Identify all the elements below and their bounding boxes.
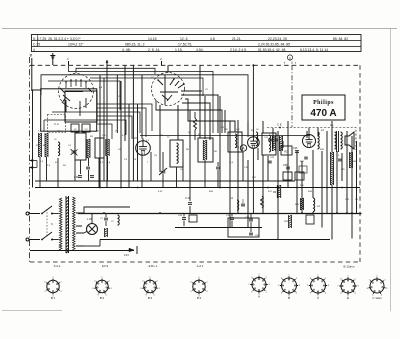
- wire drop d2: [46, 157, 48, 181]
- resistor R7 zigzag: [261, 196, 264, 208]
- wire vertical r7: [272, 128, 274, 148]
- transformer T7 secondary winding: [73, 197, 76, 250]
- capacitor C19: [216, 166, 220, 168]
- wire vertical l14: [177, 105, 179, 140]
- resistor R81 box: [189, 215, 197, 222]
- primary leads: [59, 205, 61, 207]
- svg-text:B 12avo: B 12avo: [343, 265, 354, 269]
- wire vertical l9: [132, 65, 134, 181]
- wire drop d20: [189, 206, 191, 213]
- svg-text:10/4,2 12″: 10/4,2 12″: [68, 43, 84, 47]
- svg-text:22,23,24, 25: 22,23,24, 25: [268, 37, 287, 41]
- bus HT: [100, 239, 330, 241]
- trimmer caps row: [268, 138, 272, 140]
- bus heater: [78, 213, 362, 215]
- bus mid right: [175, 227, 262, 229]
- node A circle: [240, 145, 246, 151]
- wire drop d13: [162, 174, 164, 188]
- wire drop d19: [189, 181, 191, 201]
- socket B9: [370, 279, 384, 293]
- wire vertical r31: [321, 188, 323, 228]
- svg-text:21,21,: 21,21,: [232, 37, 241, 41]
- wire vertical r34: [356, 188, 358, 214]
- junction: [321, 187, 323, 189]
- svg-text:Philips: Philips: [313, 100, 334, 106]
- parts table row separator 1: [32, 40, 362, 42]
- switch S2: [42, 232, 52, 240]
- svg-text:14B: 14B: [279, 143, 283, 145]
- wire drop d3: [57, 158, 59, 188]
- wire vertical r27: [262, 155, 264, 213]
- coil L3: [318, 132, 320, 149]
- capacitor C45: [338, 158, 342, 160]
- mains plug prong 1: [26, 212, 29, 215]
- wire drop d4: [74, 160, 76, 181]
- wire vertical r19: [336, 151, 338, 213]
- wire stage2 step 1: [181, 91, 218, 133]
- earth symbol: [52, 53, 54, 65]
- page edge right: [390, 29, 392, 312]
- tube V2 electrodes: [158, 79, 184, 88]
- coil unit small box 1: [71, 124, 79, 132]
- tube V2 EF9 envelope: [152, 73, 185, 106]
- wire vertical l7: [124, 65, 126, 141]
- wire vertical r33: [331, 185, 333, 240]
- svg-text:K.A.2: K.A.2: [54, 264, 61, 268]
- transformer T7 primary winding: [59, 198, 62, 251]
- junction: [219, 187, 221, 189]
- wire nested c5: [44, 120, 126, 135]
- wire drop d9: [107, 156, 109, 181]
- capacitor C25: [295, 150, 299, 152]
- tube V1 EK2 envelope: [59, 74, 94, 109]
- tube V1 electrodes: [66, 79, 86, 88]
- tube V2 top cap wire: [167, 65, 169, 72]
- wire stage2 step 2: [185, 99, 235, 132]
- bus AVC: [35, 180, 295, 182]
- junction: [336, 212, 338, 214]
- wire nested c6: [97, 124, 112, 139]
- svg-text:980,15, 11, 2: 980,15, 11, 2: [125, 43, 145, 47]
- wire vertical r22: [351, 136, 353, 239]
- coil unit small box 2: [82, 124, 90, 132]
- wire vertical r25: [237, 181, 239, 213]
- wire grid loop 2: [76, 68, 155, 74]
- pilot lamp L16: [87, 224, 98, 235]
- wire vertical r2: [242, 152, 244, 181]
- svg-text:51,53 45,4, 42, 48: 51,53 45,4, 42, 48: [258, 48, 285, 52]
- wire drop d16: [204, 160, 206, 188]
- chassis dashed border top: [30, 64, 360, 66]
- wire vertical r1: [237, 120, 239, 181]
- wire vertical l3: [103, 78, 105, 181]
- resistor R16 box: [299, 166, 307, 173]
- wire vertical r8: [277, 131, 279, 188]
- capacitor C66: [249, 232, 253, 234]
- wire vertical r23: [356, 141, 358, 188]
- wire drop d12: [162, 152, 164, 170]
- resistor R26 box: [281, 146, 292, 155]
- svg-text:2, 5, 14,: 2, 5, 14,: [148, 48, 160, 52]
- wire vertical l11: [141, 75, 143, 139]
- wire vertical l2: [99, 75, 101, 188]
- wire drop d18: [217, 170, 219, 188]
- tube V3 triode: [136, 141, 151, 156]
- wire vertical r24: [229, 153, 231, 228]
- wire vertical r21: [346, 131, 348, 213]
- junction: [137, 187, 139, 189]
- socket B8: [341, 279, 355, 293]
- capacitor C44: [230, 217, 234, 219]
- wire V4 cathode drop: [252, 149, 254, 214]
- socket B6: [282, 278, 297, 293]
- junction: [120, 187, 122, 189]
- junction: [326, 187, 328, 189]
- wire vertical l12: [159, 105, 161, 172]
- svg-text:B 2: B 2: [100, 296, 105, 300]
- svg-text:C65: C65: [283, 164, 288, 167]
- wire grid loop 3: [41, 75, 248, 136]
- tube V4 EB4 envelope: [248, 137, 260, 149]
- wire drop d14: [176, 167, 178, 188]
- svg-text:4, 4B,: 4, 4B,: [122, 48, 131, 52]
- wire V5 top cap: [308, 128, 310, 133]
- switch S1: [42, 206, 52, 214]
- capacitor C17: [78, 175, 82, 177]
- loudspeaker: [345, 132, 354, 149]
- wire pickup to band: [36, 161, 38, 168]
- socket B7: [311, 278, 326, 293]
- junction: [103, 212, 105, 214]
- pickup terminal arrow 1: [30, 160, 38, 162]
- svg-text:85, 84, 82: 85, 84, 82: [333, 37, 348, 41]
- wire switch to transformer: [52, 213, 59, 215]
- capacitor C18: [90, 175, 94, 177]
- variable capacitor C9: [161, 170, 166, 172]
- transformer T7 core: [65, 196, 67, 253]
- tube V1 cathode: [65, 91, 83, 93]
- wire secondary down: [84, 245, 100, 247]
- IF can T3 box: [198, 138, 213, 162]
- junction: [296, 187, 298, 189]
- svg-text:12, 6: 12, 6: [180, 37, 188, 41]
- resistor R1: [39, 133, 42, 157]
- capacitor C13: [249, 218, 253, 220]
- junction: [237, 187, 239, 189]
- svg-text:S: S: [51, 222, 53, 226]
- resistor R9 dark: [277, 185, 280, 198]
- resistor R6 dark: [203, 140, 206, 160]
- wire vertical r20: [341, 153, 343, 181]
- svg-text:4,54,: 4,54,: [196, 48, 204, 52]
- capacitor C4 trimmer: [71, 149, 78, 156]
- resistor R14 dark: [272, 136, 275, 151]
- wire vertical r6: [267, 156, 269, 181]
- coil L5: [58, 142, 60, 156]
- wire vertical r12: [301, 161, 303, 213]
- svg-text:13 b: 13 b: [124, 253, 130, 257]
- svg-text:C: C: [317, 296, 319, 300]
- output transformer primary: [335, 132, 337, 149]
- wire vertical l20: [229, 121, 231, 153]
- wire drop d6: [88, 158, 90, 166]
- wire antenna lead: [31, 58, 33, 90]
- coil L23 dark: [106, 139, 109, 156]
- border node arrow 107: [106, 60, 108, 65]
- junction: [301, 212, 303, 214]
- transformer taps: [76, 213, 84, 246]
- svg-text:2,24 26,32,85, 84, 85: 2,24 26,32,85, 84, 85: [258, 43, 290, 47]
- svg-text:C25: C25: [293, 147, 298, 150]
- junction: [159, 212, 161, 214]
- junction: [189, 187, 191, 189]
- resistor R15 dark: [279, 136, 282, 151]
- wire vertical l19: [224, 110, 226, 133]
- wire vertical l6: [120, 81, 122, 188]
- coil L6: [237, 200, 239, 210]
- svg-text:C 25: C 25: [33, 43, 40, 47]
- parts table row separator 2: [32, 46, 362, 48]
- bus detector row: [140, 135, 310, 137]
- resistor R19 box: [283, 172, 292, 180]
- tube V1 grid stubs: [60, 88, 92, 93]
- dial pointer line: [30, 250, 134, 252]
- aerial coil inner box: [65, 91, 97, 122]
- svg-text:A: A: [258, 295, 260, 299]
- socket B1 EK2: [47, 280, 59, 292]
- socket B5: [252, 278, 266, 292]
- wire vertical r10: [287, 121, 289, 150]
- junction: [312, 212, 314, 214]
- wire vertical r30: [296, 181, 298, 213]
- socket B3 EBL1: [144, 280, 156, 292]
- capacitor C15: [86, 166, 90, 168]
- wire stage2 step 3: [182, 103, 210, 140]
- capacitor C16b: [241, 203, 245, 205]
- socket B4 AZ1: [193, 280, 205, 292]
- coil L2: [256, 132, 258, 146]
- wire vertical r9: [282, 141, 284, 148]
- wire drop d8: [98, 158, 100, 188]
- output transformer secondary: [341, 132, 343, 149]
- wire vertical r32: [326, 188, 328, 214]
- resistor R2: [45, 133, 48, 157]
- wire tube1 pin drops: [66, 98, 86, 116]
- wire vertical r29: [287, 150, 289, 188]
- wire drop d5: [80, 160, 82, 174]
- chassis dashed border right: [359, 65, 361, 262]
- switch link dashed: [46, 209, 48, 236]
- svg-text:1 15,: 1 15,: [175, 48, 183, 52]
- svg-text:E.B.L.1: E.B.L.1: [149, 264, 158, 268]
- output transformer T6 core: [336, 131, 338, 152]
- junction: [267, 187, 269, 189]
- svg-text:I: I: [292, 61, 293, 65]
- rectifier wires: [84, 207, 130, 213]
- svg-text:R26: R26: [284, 150, 289, 153]
- svg-text:17,52,75,: 17,52,75,: [178, 43, 192, 47]
- coil T2 winding: [177, 143, 179, 163]
- junction: [351, 212, 353, 214]
- wire nested c4: [97, 116, 132, 139]
- pickup terminal arrow 2: [30, 167, 38, 169]
- wire grid loop 1: [69, 66, 214, 134]
- resistor R45: [330, 152, 333, 185]
- wire vertical r28: [277, 188, 279, 240]
- junction: [99, 187, 101, 189]
- tube V5 EBL1 envelope: [303, 135, 316, 148]
- border node tick 2: [161, 61, 163, 65]
- capacitor C11: [104, 217, 108, 219]
- junction: [356, 187, 358, 189]
- IF can T1 box: [75, 133, 86, 160]
- resistor R29 box: [306, 215, 314, 224]
- svg-text:6,13 13,4, 5, 11 14: 6,13 13,4, 5, 11 14: [300, 48, 328, 52]
- IF can T1b box: [95, 138, 104, 158]
- wire vertical r14: [312, 150, 314, 198]
- trimmer dashed box: [48, 115, 66, 133]
- chassis dash-dot border left: [29, 57, 31, 262]
- junction: [341, 187, 343, 189]
- svg-text:4,8: 4,8: [210, 37, 215, 41]
- wire vertical r11: [296, 151, 298, 181]
- svg-text:470 A: 470 A: [310, 108, 336, 119]
- wire dash-dot column I: [291, 65, 293, 127]
- Philips 470A label box: [302, 95, 345, 120]
- wire vertical r3: [247, 121, 249, 137]
- wire vertical l5: [116, 75, 118, 133]
- capacitor C65: [286, 166, 290, 168]
- wire vertical r4: [257, 148, 259, 160]
- svg-text:B 1: B 1: [51, 296, 56, 300]
- wire vertical l10: [137, 104, 139, 181]
- wire vertical r16: [321, 151, 323, 188]
- capacitor C23 small: [268, 160, 272, 162]
- resistor R10 box: [295, 172, 304, 180]
- wire right column 253: [252, 65, 254, 137]
- svg-text:B 4: B 4: [197, 296, 202, 300]
- parts table frame: [32, 35, 362, 52]
- wire vertical r5: [262, 121, 264, 134]
- speaker field coil: [350, 152, 353, 168]
- resistor R8: [105, 228, 108, 237]
- chassis dashed border bottom: [30, 261, 360, 263]
- svg-text:B: B: [288, 296, 290, 300]
- svg-text:C m: C m: [54, 122, 59, 126]
- wire vertical l13: [164, 75, 166, 105]
- wire lamp leads: [84, 232, 87, 234]
- wire stage2 step 4: [156, 100, 222, 133]
- mains plug prong 2: [26, 238, 29, 241]
- wire grid loop 4: [90, 78, 203, 96]
- junction: [346, 212, 348, 214]
- wire vertical r18: [331, 121, 333, 152]
- svg-text:4: 4: [33, 48, 35, 52]
- parts table column tick: [37, 35, 39, 47]
- svg-text:5: 4,7,25, 26, 31,2,2,4 + 3,3: 5: 4,7,25, 26, 31,2,2,4 + 3,3 0 |*: [33, 37, 81, 41]
- node D circled: [287, 55, 292, 60]
- wire vertical l18: [219, 96, 221, 188]
- coil T5 winding: [269, 135, 271, 152]
- capacitor C20: [188, 202, 192, 204]
- resistor R5: [194, 118, 197, 130]
- svg-text:E: E: [347, 296, 349, 300]
- wire vertical l4: [106, 60, 108, 188]
- wire antenna to stage1: [32, 89, 41, 91]
- detector box: [228, 218, 259, 237]
- border node tick 1: [68, 61, 70, 65]
- wire drop d10: [141, 153, 143, 188]
- svg-text:B 3: B 3: [148, 296, 153, 300]
- wire drop d15: [182, 162, 184, 181]
- wire vertical r26: [247, 160, 249, 228]
- wire grid loop 5: [48, 81, 120, 110]
- wire vertical r13: [306, 131, 308, 138]
- wire drop d17: [217, 162, 219, 166]
- svg-text:14,15: 14,15: [148, 37, 157, 41]
- IF transformer T2 box: [170, 140, 183, 167]
- svg-text:A.Z.1: A.Z.1: [197, 264, 204, 268]
- wire vertical r17: [326, 131, 328, 188]
- wire nested c1: [97, 104, 152, 131]
- page edge top: [2, 28, 397, 30]
- tube V2 cathode: [160, 91, 178, 93]
- junction: [277, 187, 279, 189]
- svg-text:C E: C E: [277, 123, 282, 127]
- IF can T4 box: [228, 132, 242, 152]
- wire vertical l17: [204, 96, 206, 139]
- svg-text:E.F.9: E.F.9: [102, 264, 109, 268]
- socket B2 EF9: [96, 280, 108, 292]
- resistor R45b: [301, 198, 304, 210]
- capacitor C24 small: [304, 156, 308, 158]
- wire drop d11: [150, 152, 152, 181]
- resistor R3 dark: [87, 139, 90, 158]
- wire vertical r15: [317, 128, 319, 137]
- wire drop d7: [88, 170, 90, 181]
- coil T4 winding: [235, 134, 237, 148]
- svg-text:2 14, 2 4 5: 2 14, 2 4 5: [230, 48, 246, 52]
- wire nested c3: [52, 112, 140, 133]
- bus ground: [35, 187, 360, 189]
- wire vertical l15: [189, 110, 191, 188]
- wire vertical l1: [32, 90, 34, 188]
- wire vertical l8: [128, 104, 130, 188]
- oscillator coil box L1: [41, 89, 97, 131]
- IF can T5 box: [262, 133, 276, 155]
- svg-text:C 12av: C 12av: [372, 296, 382, 300]
- capacitor C48: [182, 217, 186, 219]
- wire drop d1: [39, 157, 41, 188]
- wire vertical l16: [199, 65, 201, 138]
- coil L4: [313, 198, 315, 212]
- svg-text:Y: Y: [30, 53, 33, 58]
- coil L12: [118, 215, 120, 225]
- wire nested c2: [97, 108, 146, 137]
- page edge bottom-left: [2, 310, 62, 312]
- oscillator dashed box: [267, 128, 356, 151]
- resistor R23: [289, 215, 292, 228]
